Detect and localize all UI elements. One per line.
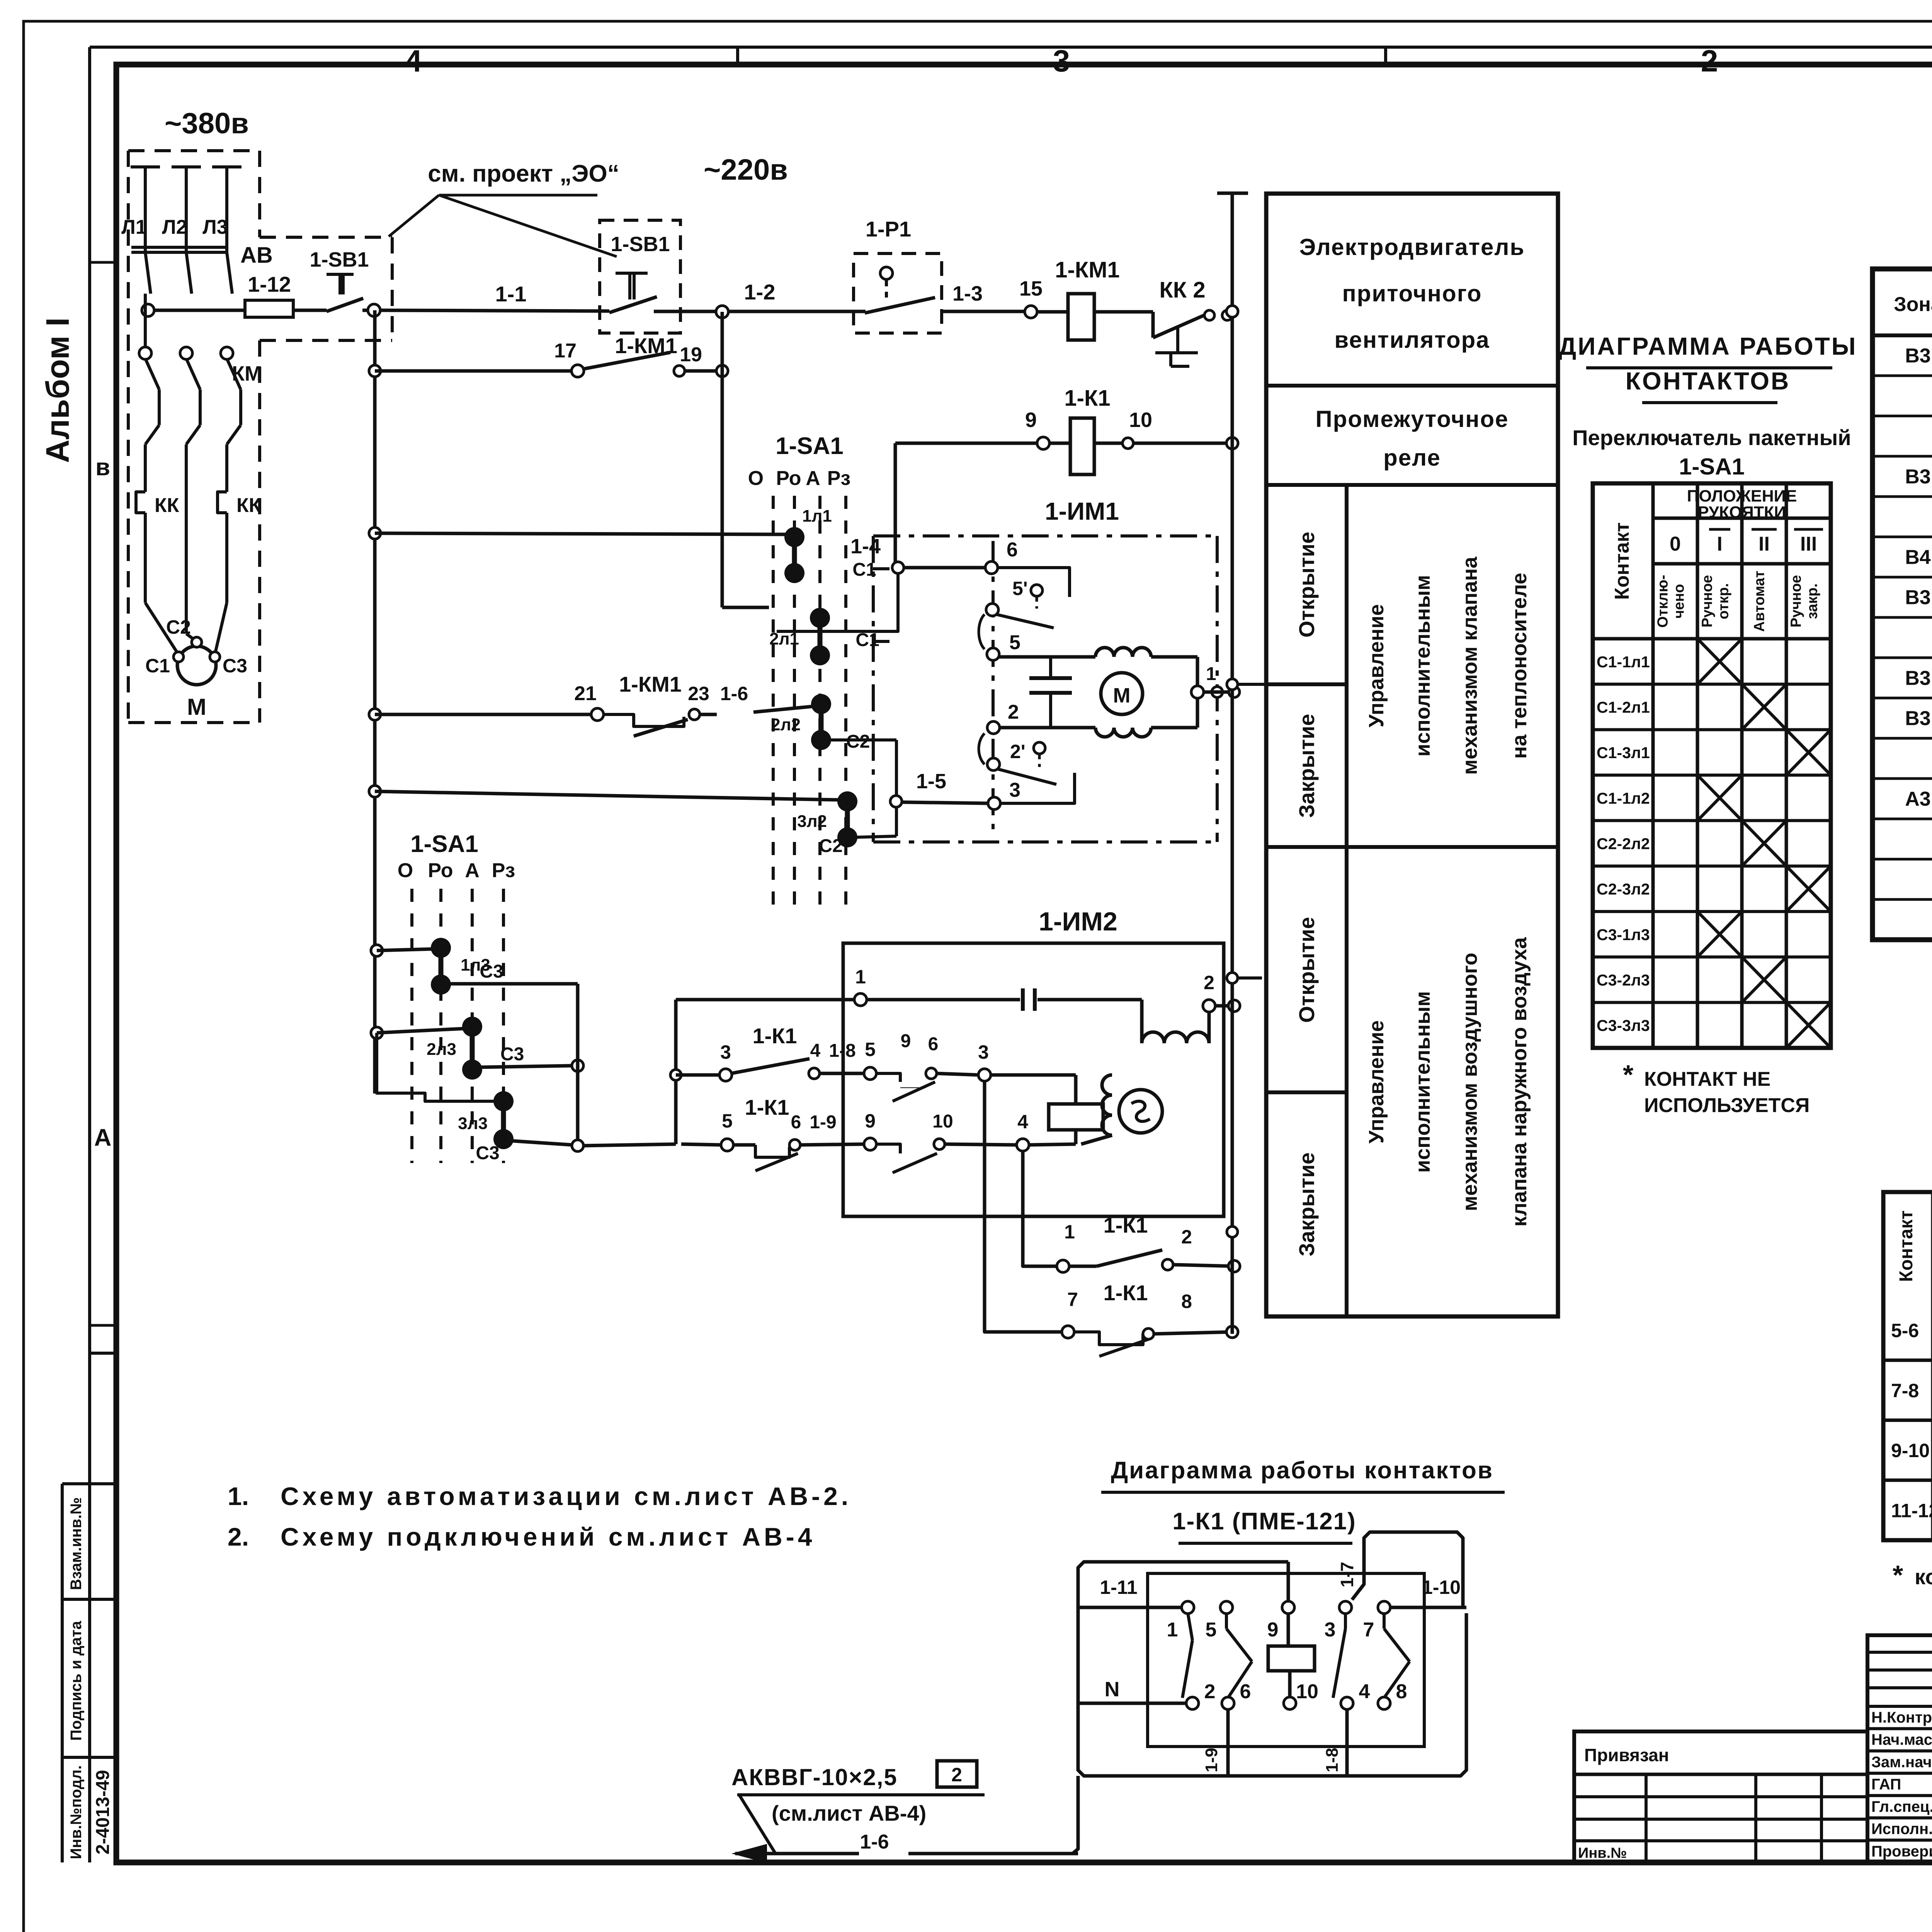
svg-text:Зам.нач: Зам.нач: [1871, 1753, 1932, 1770]
svg-text:3: 3: [1009, 779, 1020, 801]
svg-text:С1-1л1: С1-1л1: [1597, 653, 1650, 671]
svg-text:закр.: закр.: [1804, 583, 1821, 619]
svg-text:1-К1: 1-К1: [1103, 1213, 1148, 1237]
svg-text:С2: С2: [846, 731, 870, 752]
svg-text:1-1: 1-1: [495, 282, 527, 306]
svg-text:17: 17: [554, 340, 577, 362]
svg-text:*: *: [1893, 1560, 1903, 1590]
svg-text:вентилятора: вентилятора: [1334, 327, 1490, 353]
svg-text:1: 1: [1167, 1619, 1178, 1641]
svg-text:4: 4: [1359, 1680, 1370, 1703]
svg-text:КОНТАКТ НЕ: КОНТАКТ НЕ: [1644, 1068, 1770, 1090]
svg-text:Ро: Ро: [776, 467, 801, 490]
svg-text:3: 3: [720, 1041, 731, 1063]
svg-text:Закрытие: Закрытие: [1294, 1152, 1319, 1256]
svg-text:С1-1л2: С1-1л2: [1597, 789, 1650, 807]
svg-text:С1-3л1: С1-3л1: [1597, 744, 1650, 762]
svg-text:2: 2: [951, 1764, 962, 1786]
svg-text:1-4: 1-4: [850, 535, 881, 558]
svg-text:7: 7: [1067, 1289, 1078, 1310]
svg-text:С2: С2: [166, 616, 191, 638]
svg-text:КК: КК: [155, 494, 179, 517]
svg-text:3л3: 3л3: [458, 1114, 488, 1133]
svg-text:1-SA1: 1-SA1: [776, 433, 844, 459]
svg-text:Контакт: Контакт: [1896, 1210, 1917, 1282]
svg-text:С1-2л1: С1-2л1: [1597, 699, 1650, 716]
svg-text:клапана наружного воздуха: клапана наружного воздуха: [1508, 937, 1531, 1227]
svg-text:см. проект „ЭО“: см. проект „ЭО“: [428, 160, 619, 187]
svg-text:приточного: приточного: [1342, 281, 1482, 306]
svg-text:II: II: [1759, 533, 1770, 555]
svg-text:М: М: [1113, 684, 1131, 707]
svg-text:19: 19: [680, 344, 702, 366]
svg-text:1-6: 1-6: [860, 1831, 889, 1853]
svg-text:Подпись и дата: Подпись и дата: [68, 1621, 85, 1741]
svg-text:Рз: Рз: [492, 859, 515, 882]
svg-text:на теплоносителе: на теплоносителе: [1508, 573, 1531, 759]
svg-text:2л3: 2л3: [427, 1040, 456, 1059]
svg-text:1-КМ1: 1-КМ1: [619, 672, 682, 696]
svg-text:КК: КК: [236, 494, 261, 517]
svg-text:5: 5: [1009, 631, 1020, 654]
svg-text:Диаграмма работы контактов: Диаграмма работы контактов: [1111, 1457, 1493, 1484]
svg-text:6: 6: [1240, 1680, 1251, 1703]
svg-text:контакт не используется: контакт не используется: [1915, 1565, 1932, 1589]
svg-text:2: 2: [1204, 1680, 1216, 1703]
svg-text:В3: В3: [1905, 587, 1930, 609]
svg-text:Л2: Л2: [162, 216, 187, 238]
svg-text:9-10: 9-10: [1891, 1440, 1930, 1461]
svg-text:6: 6: [1007, 539, 1018, 561]
svg-text:9: 9: [865, 1110, 876, 1132]
svg-text:КМ: КМ: [232, 362, 262, 385]
svg-text:10: 10: [1129, 408, 1152, 432]
svg-text:2: 2: [1008, 701, 1019, 723]
svg-text:Л3: Л3: [202, 216, 228, 238]
svg-text:1-9: 1-9: [810, 1112, 836, 1133]
svg-text:1-КМ1: 1-КМ1: [615, 333, 677, 358]
svg-text:Инв.№: Инв.№: [1578, 1845, 1627, 1861]
svg-text:Исполн.: Исполн.: [1871, 1821, 1932, 1838]
svg-text:1: 1: [1064, 1221, 1075, 1243]
svg-text:Схему подключений см.лист АВ-4: Схему подключений см.лист АВ-4: [281, 1522, 816, 1551]
svg-text:1: 1: [1206, 664, 1216, 684]
svg-text:А: А: [806, 467, 820, 490]
svg-text:1-К1: 1-К1: [752, 1024, 797, 1048]
svg-text:1-8: 1-8: [829, 1041, 855, 1061]
svg-text:откр.: откр.: [1716, 583, 1732, 619]
svg-text:8: 8: [1181, 1291, 1192, 1312]
svg-text:10: 10: [1296, 1680, 1318, 1703]
svg-text:1-9: 1-9: [1202, 1748, 1221, 1772]
svg-text:А3: А3: [1905, 788, 1930, 810]
svg-text:С3: С3: [500, 1044, 524, 1065]
svg-text:III: III: [1800, 533, 1817, 555]
svg-text:1-SA1: 1-SA1: [410, 831, 478, 857]
svg-text:1: 1: [855, 966, 866, 988]
svg-text:механизмом клапана: механизмом клапана: [1458, 556, 1481, 775]
svg-text:Гл.спец.: Гл.спец.: [1871, 1798, 1932, 1815]
svg-text:Закрытие: Закрытие: [1294, 714, 1319, 818]
svg-text:реле: реле: [1383, 445, 1441, 471]
svg-text:С2-2л2: С2-2л2: [1597, 835, 1650, 853]
svg-text:Открытие: Открытие: [1294, 917, 1319, 1023]
svg-text:1-11: 1-11: [1100, 1577, 1137, 1598]
svg-text:1-10: 1-10: [1422, 1577, 1461, 1598]
svg-text:1-Р1: 1-Р1: [866, 217, 911, 241]
svg-text:4: 4: [1017, 1111, 1028, 1133]
svg-text:(см.лист АВ-4): (см.лист АВ-4): [772, 1801, 926, 1825]
svg-text:2л2: 2л2: [771, 715, 801, 734]
svg-text:С3-1л3: С3-1л3: [1597, 926, 1650, 944]
svg-text:Автомат: Автомат: [1752, 571, 1768, 632]
svg-text:О: О: [398, 859, 413, 882]
svg-text:исполнительным: исполнительным: [1411, 991, 1434, 1173]
svg-text:5: 5: [865, 1039, 876, 1060]
svg-text:Отклю-: Отклю-: [1655, 575, 1671, 628]
svg-text:Переключатель пакетный: Переключатель пакетный: [1572, 425, 1851, 450]
svg-text:ГАП: ГАП: [1871, 1776, 1901, 1793]
svg-text:I: I: [1717, 533, 1722, 555]
svg-text:3: 3: [1325, 1619, 1336, 1641]
svg-text:9: 9: [1025, 408, 1037, 432]
svg-text:21: 21: [574, 682, 597, 705]
svg-text:2-4013-49: 2-4013-49: [93, 1770, 113, 1855]
svg-text:Альбом I: Альбом I: [39, 318, 76, 463]
svg-text:15: 15: [1019, 277, 1043, 300]
svg-text:6: 6: [928, 1034, 939, 1054]
svg-text:Ро: Ро: [428, 859, 453, 882]
svg-text:С3: С3: [223, 655, 247, 677]
svg-text:2.: 2.: [228, 1522, 249, 1551]
svg-text:Рз: Рз: [827, 467, 851, 490]
svg-text:1л1: 1л1: [802, 507, 832, 526]
svg-text:7: 7: [1363, 1619, 1374, 1641]
svg-text:Ручное: Ручное: [1699, 575, 1716, 628]
svg-text:5-6: 5-6: [1891, 1320, 1919, 1342]
svg-text:Н.Контр.: Н.Контр.: [1871, 1709, 1932, 1726]
svg-text:В4: В4: [1905, 546, 1931, 568]
svg-text:1-5: 1-5: [916, 770, 946, 793]
svg-text:О: О: [748, 467, 764, 490]
svg-text:1-12: 1-12: [248, 272, 291, 296]
svg-text:7-8: 7-8: [1891, 1380, 1919, 1401]
svg-text:Нач.мас.: Нач.мас.: [1871, 1731, 1932, 1748]
svg-text:*: *: [1623, 1060, 1634, 1090]
svg-text:С3: С3: [476, 1143, 499, 1163]
svg-text:Инв.№подл.: Инв.№подл.: [68, 1765, 85, 1859]
svg-text:В3: В3: [1905, 466, 1930, 488]
svg-text:Управление: Управление: [1365, 1020, 1388, 1143]
svg-text:1-К1: 1-К1: [1103, 1281, 1148, 1305]
svg-text:С2-3л2: С2-3л2: [1597, 880, 1650, 898]
svg-text:1-К1: 1-К1: [745, 1095, 789, 1119]
svg-text:~380в: ~380в: [165, 107, 249, 140]
svg-text:5: 5: [722, 1110, 733, 1132]
svg-text:~220в: ~220в: [704, 153, 788, 186]
svg-text:1-3: 1-3: [952, 282, 983, 305]
svg-text:1-К1 (ПМЕ-121): 1-К1 (ПМЕ-121): [1172, 1508, 1356, 1535]
svg-text:11-12: 11-12: [1891, 1500, 1932, 1521]
svg-text:Ручное: Ручное: [1788, 575, 1804, 628]
svg-text:N: N: [1105, 1678, 1120, 1701]
svg-text:1-8: 1-8: [1323, 1748, 1342, 1772]
svg-text:ДИАГРАММА РАБОТЫ: ДИАГРАММА РАБОТЫ: [1559, 332, 1857, 360]
svg-text:В3: В3: [1905, 707, 1930, 730]
svg-text:С1: С1: [145, 655, 170, 677]
svg-text:чено: чено: [1671, 584, 1687, 618]
svg-text:1-КМ1: 1-КМ1: [1055, 257, 1120, 282]
svg-text:23: 23: [688, 683, 709, 704]
svg-text:Схему автоматизации см.лист АВ: Схему автоматизации см.лист АВ-2.: [281, 1482, 852, 1510]
svg-text:Промежуточное: Промежуточное: [1315, 406, 1509, 432]
svg-text:ПОЛОЖЕНИЕ: ПОЛОЖЕНИЕ: [1687, 487, 1797, 505]
svg-text:КОНТАКТОВ: КОНТАКТОВ: [1626, 367, 1791, 395]
svg-text:1-SB1: 1-SB1: [611, 233, 670, 256]
svg-text:Открытие: Открытие: [1294, 532, 1319, 638]
svg-text:0: 0: [1670, 533, 1681, 555]
svg-text:С3: С3: [480, 961, 503, 982]
svg-text:3: 3: [978, 1041, 989, 1063]
svg-text:Управление: Управление: [1365, 604, 1388, 727]
svg-text:5': 5': [1012, 578, 1028, 599]
svg-text:М: М: [187, 694, 206, 720]
svg-text:1-ИМ1: 1-ИМ1: [1045, 497, 1119, 525]
svg-text:1-SB1: 1-SB1: [310, 248, 369, 271]
svg-text:4: 4: [405, 44, 422, 78]
svg-text:С2: С2: [819, 836, 842, 856]
svg-text:1-К1: 1-К1: [1064, 386, 1110, 411]
svg-text:9: 9: [1267, 1619, 1279, 1641]
svg-text:АКВВГ-10×2,5: АКВВГ-10×2,5: [731, 1764, 898, 1790]
svg-text:3: 3: [1053, 44, 1070, 78]
svg-text:Л1: Л1: [121, 216, 146, 238]
svg-text:2: 2: [1204, 972, 1214, 993]
svg-text:2: 2: [1701, 44, 1718, 78]
svg-text:Проверил: Проверил: [1871, 1843, 1932, 1860]
svg-text:Зона: Зона: [1894, 293, 1932, 316]
svg-text:8: 8: [1396, 1680, 1407, 1703]
svg-text:РУКОЯТКИ: РУКОЯТКИ: [1698, 503, 1786, 522]
svg-text:Контакт: Контакт: [1611, 522, 1633, 600]
svg-text:ИСПОЛЬЗУЕТСЯ: ИСПОЛЬЗУЕТСЯ: [1644, 1094, 1810, 1117]
svg-text:С3-2л3: С3-2л3: [1597, 971, 1650, 989]
svg-text:1.: 1.: [228, 1482, 249, 1510]
svg-text:Привязан: Привязан: [1584, 1745, 1669, 1765]
svg-text:А: А: [94, 1124, 112, 1151]
svg-text:КК 2: КК 2: [1159, 277, 1205, 303]
svg-text:В3: В3: [1905, 667, 1930, 689]
svg-text:3л2: 3л2: [797, 812, 827, 831]
svg-text:АВ: АВ: [240, 243, 273, 268]
svg-text:6: 6: [791, 1112, 801, 1133]
svg-text:С3-3л3: С3-3л3: [1597, 1017, 1650, 1034]
svg-text:А: А: [465, 859, 480, 882]
svg-text:В3: В3: [1905, 345, 1930, 367]
svg-text:1-ИМ2: 1-ИМ2: [1039, 907, 1117, 936]
svg-text:5: 5: [1206, 1619, 1217, 1641]
svg-text:4: 4: [810, 1041, 821, 1061]
svg-text:1-2: 1-2: [744, 280, 776, 304]
svg-text:1-SA1: 1-SA1: [1679, 454, 1745, 480]
svg-text:1-6: 1-6: [720, 683, 748, 704]
svg-text:в: в: [95, 454, 110, 481]
svg-text:2': 2': [1010, 741, 1026, 762]
svg-text:2: 2: [1181, 1226, 1192, 1248]
svg-text:Взам.инв.№: Взам.инв.№: [68, 1497, 85, 1590]
svg-text:механизмом воздушного: механизмом воздушного: [1458, 952, 1481, 1211]
svg-text:10: 10: [932, 1111, 953, 1132]
svg-text:Электродвигатель: Электродвигатель: [1299, 234, 1525, 260]
svg-text:исполнительным: исполнительным: [1411, 575, 1434, 757]
svg-text:9: 9: [901, 1031, 911, 1051]
